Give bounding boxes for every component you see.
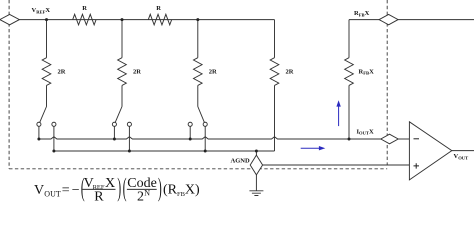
wire leg2 upper xyxy=(121,20,123,58)
junction S1 left on IOUT rail xyxy=(37,138,40,141)
DAC boundary dashed box right border xyxy=(386,0,388,165)
svg-text:R: R xyxy=(156,5,161,12)
svg-text:X): X) xyxy=(185,182,200,197)
switch S2 right contact stub xyxy=(128,126,130,151)
svg-text:2R: 2R xyxy=(209,69,217,76)
junction AGND tap on AGND rail xyxy=(255,150,258,153)
wire IOUT pin to op-amp inverting input xyxy=(398,138,409,140)
junction S3 left on IOUT rail xyxy=(189,138,192,141)
DAC boundary dashed box bottom border xyxy=(9,168,387,170)
wire RFB row left segment xyxy=(349,19,379,21)
DAC boundary dashed box left border xyxy=(8,0,10,169)
switch S3 right contact xyxy=(203,122,207,126)
pin VREF diamond xyxy=(0,14,19,24)
junction RFB on IOUT rail xyxy=(348,138,351,141)
svg-text:2R: 2R xyxy=(133,69,141,76)
svg-text:VREFX: VREFX xyxy=(32,7,51,14)
wire AGND tap xyxy=(255,151,257,155)
junction S1 right on AGND rail xyxy=(52,150,55,153)
junction S3 right on AGND rail xyxy=(204,150,207,153)
junction node VREF ladder node1 xyxy=(45,18,48,21)
wire IOUT rail with crossover hops xyxy=(39,137,381,139)
switch S2 left contact xyxy=(112,122,116,126)
wire AGND rail xyxy=(54,150,275,152)
resistor R2 xyxy=(148,14,171,25)
wire leg4 lower to AGND rail xyxy=(274,85,276,151)
switch S3 left contact stub xyxy=(189,126,191,139)
resistor 2R leg3 xyxy=(194,58,203,86)
svg-text:OUT: OUT xyxy=(44,189,61,198)
wire top rail VREF to ladder termination corner xyxy=(19,19,274,21)
svg-text:2: 2 xyxy=(137,189,144,204)
svg-text:R: R xyxy=(82,5,87,12)
switch S1 left contact stub xyxy=(38,126,40,139)
equation fraction 2 bar xyxy=(127,188,157,190)
equation VOUT formula xyxy=(34,174,200,205)
switch S3 right contact stub xyxy=(204,126,206,151)
op-amp plus sign xyxy=(414,163,420,168)
svg-text:): ) xyxy=(158,174,162,203)
ground symbol xyxy=(249,191,263,196)
current arrow up at RFB xyxy=(336,100,340,126)
svg-text:N: N xyxy=(144,189,150,198)
pin RFB diamond xyxy=(379,14,398,24)
svg-text:AGND: AGND xyxy=(231,158,250,165)
wire AGND diamond to ground xyxy=(255,175,257,191)
svg-text:RFBX: RFBX xyxy=(359,68,375,75)
switch S2 right contact xyxy=(127,122,131,126)
pin IOUT diamond xyxy=(381,134,398,144)
switch S2 arm xyxy=(115,107,122,123)
svg-text:2R: 2R xyxy=(58,69,66,76)
junction S2 right on AGND rail xyxy=(128,150,131,153)
junction S2 left on IOUT rail xyxy=(113,138,116,141)
resistor 2R leg2 xyxy=(118,58,127,86)
equation fraction 2 opening paren xyxy=(123,174,127,203)
wire leg3 lower xyxy=(197,85,199,106)
wire RFB leg upper xyxy=(348,20,350,58)
wire RFB leg lower xyxy=(348,85,350,139)
current arrow right on IOUT rail xyxy=(301,146,326,150)
svg-text:VOUT: VOUT xyxy=(454,153,469,160)
svg-text:IOUTX: IOUTX xyxy=(357,128,375,135)
switch S1 arm xyxy=(40,107,47,123)
pin AGND diamond xyxy=(250,155,262,175)
switch S3 left contact xyxy=(188,122,192,126)
svg-text:=: = xyxy=(62,183,70,198)
svg-text:R: R xyxy=(94,189,104,204)
svg-text:−: − xyxy=(72,183,80,198)
op-amp U1 xyxy=(409,122,451,180)
wire RFB pin to right edge xyxy=(398,19,474,21)
wire AGND to op-amp noninverting input xyxy=(263,164,410,166)
junction node2 xyxy=(121,18,124,21)
wire leg3 upper xyxy=(197,20,199,58)
equation fraction 1 bar xyxy=(83,188,116,190)
switch S1 right contact xyxy=(52,122,56,126)
switch S2 left contact stub xyxy=(113,126,115,139)
svg-text:V: V xyxy=(34,183,44,198)
switch S1 right contact stub xyxy=(53,126,55,151)
svg-text:X: X xyxy=(105,176,115,191)
junction node3 xyxy=(196,18,199,21)
switch S3 arm xyxy=(198,107,205,123)
equation fraction 2 closing paren xyxy=(158,174,162,203)
svg-text:(: ( xyxy=(123,174,127,203)
svg-text:RFBX: RFBX xyxy=(354,10,370,17)
resistor 2R leg4 termination xyxy=(270,58,279,86)
switch S1 left contact xyxy=(37,122,41,126)
equation fraction 1 closing paren xyxy=(117,174,121,203)
wire op-amp output xyxy=(452,150,474,152)
equation fraction 1 opening paren xyxy=(81,174,85,203)
svg-text:): ) xyxy=(117,174,121,203)
op-amp minus sign xyxy=(414,138,420,140)
resistor RFB xyxy=(345,58,354,86)
resistor 2R leg1 xyxy=(42,58,51,86)
wire leg1 lower xyxy=(46,85,48,106)
wire leg4 upper xyxy=(274,20,276,58)
wire leg1 upper xyxy=(46,20,48,58)
resistor R1 xyxy=(73,14,96,25)
wire leg2 lower xyxy=(121,85,123,106)
svg-text:(R: (R xyxy=(163,182,178,197)
svg-text:2R: 2R xyxy=(286,69,294,76)
